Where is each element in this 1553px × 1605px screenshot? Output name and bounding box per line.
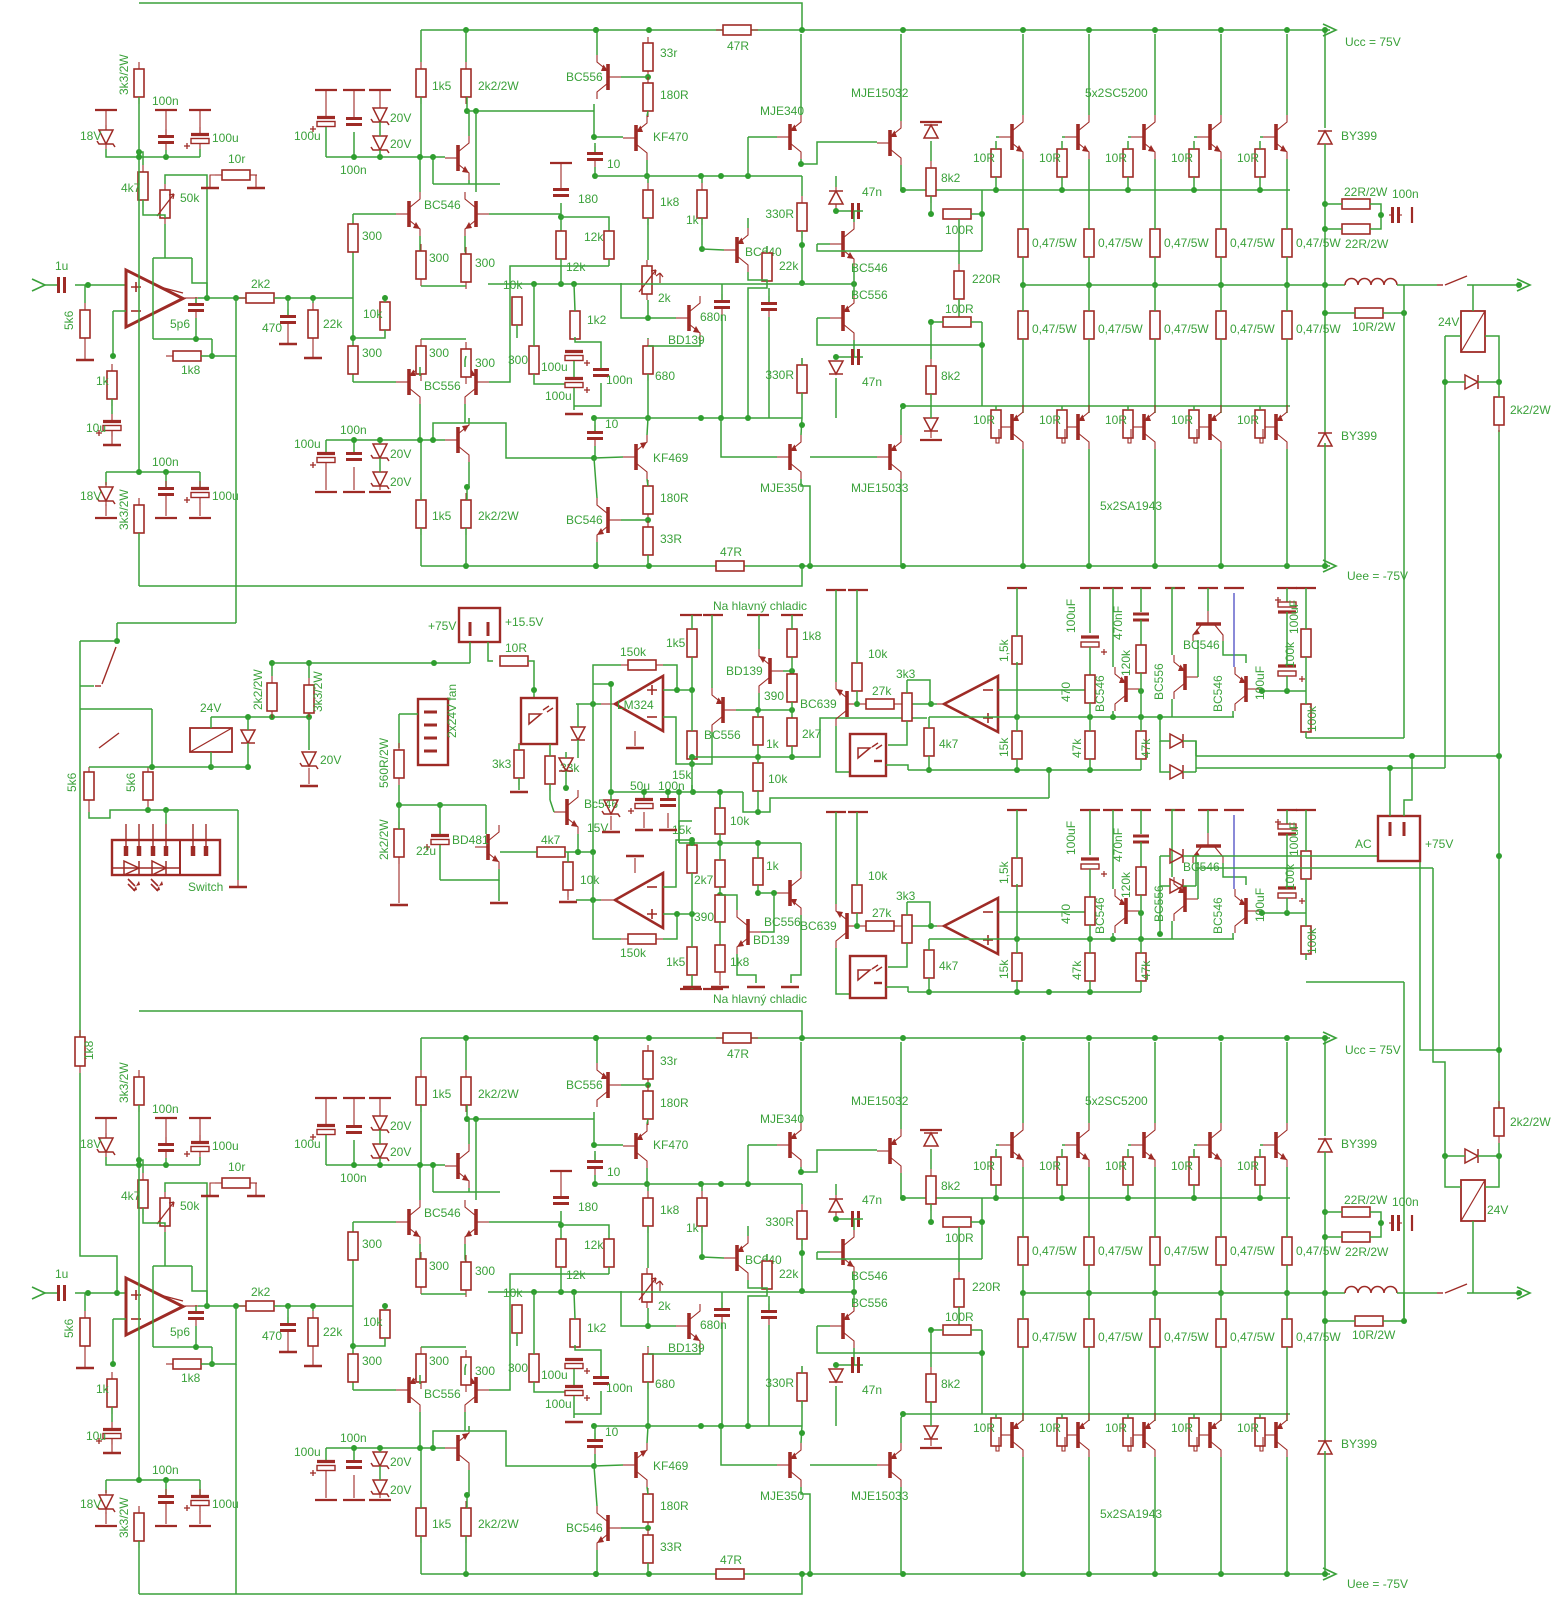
diode drive a: [577, 726, 579, 728]
resistor 10R top #2: [1061, 1156, 1063, 1158]
resistor 300 in2: [352, 345, 354, 347]
transistor 2SA1943 #3: [1142, 1422, 1146, 1448]
wire opamp output: [601, 899, 615, 901]
svg-text:2k2/2W: 2k2/2W: [1510, 1115, 1551, 1129]
wire bc546b collector: [594, 458, 597, 498]
diode protection lower: [835, 360, 837, 362]
svg-text:100n: 100n: [340, 423, 367, 437]
resistor 0,47/5W top #1: [1022, 228, 1024, 230]
transistor 2SA1943 #5: [1274, 1422, 1278, 1448]
wire bc556 emitter to rail: [596, 30, 598, 55]
resistor 3k3/2W lower: [138, 498, 140, 505]
switch output: [1437, 284, 1443, 286]
svg-text:100n: 100n: [340, 163, 367, 177]
resistor 33R lower: [647, 521, 649, 527]
svg-text:BC639: BC639: [800, 919, 837, 933]
svg-text:10k: 10k: [363, 1315, 383, 1329]
wire inductor out: [1397, 1292, 1437, 1294]
capacitor 100uF sensor c: [1278, 886, 1296, 889]
zener 15V: [610, 799, 612, 801]
transistor BD139 limiter: [768, 658, 772, 684]
wire mje15032 collector: [900, 1042, 902, 1129]
svg-text:20V: 20V: [390, 447, 411, 461]
resistor 3k3/2W mid: [308, 678, 310, 685]
wire ltp emitters: [419, 236, 421, 251]
relay 24V mid: [190, 728, 232, 752]
wire bd139 low emitter: [737, 954, 756, 983]
wire emitter col #4: [1220, 1167, 1222, 1237]
transistor MJE15033: [888, 444, 892, 470]
transistor MJE340: [788, 1132, 792, 1158]
capacitor 100u rail top: [315, 89, 337, 91]
svg-text:10u: 10u: [86, 421, 106, 435]
ground 10r left: [210, 175, 215, 188]
transistor BC546 sensor c: [1244, 898, 1248, 924]
svg-text:10R: 10R: [1237, 151, 1259, 165]
resistor 22k bias: [766, 246, 768, 253]
svg-text:0,47/5W: 0,47/5W: [1164, 1330, 1209, 1344]
capacitor 10 upper: [594, 146, 596, 152]
wire collector low #4: [1220, 1457, 1222, 1574]
wire collector low #5: [1286, 1457, 1288, 1574]
resistor 12k b: [608, 1238, 610, 1240]
resistor 0,47/5W top #4: [1220, 1236, 1222, 1238]
svg-text:2k2/2W: 2k2/2W: [1510, 403, 1551, 417]
wire bc546p emitter: [853, 266, 855, 284]
svg-text:300: 300: [429, 251, 449, 265]
resistor 8k2 upper: [930, 161, 932, 168]
ground 5k6: [84, 1353, 86, 1368]
resistor 0,47/5W top #2: [1088, 228, 1090, 230]
resistor 100k sensor a: [1301, 629, 1311, 657]
wire bc639 collector: [836, 726, 850, 772]
svg-text:1k2: 1k2: [587, 1321, 607, 1335]
svg-text:180: 180: [578, 192, 598, 206]
wire kf470 base net: [594, 1112, 623, 1145]
svg-text:0,47/5W: 0,47/5W: [1296, 322, 1341, 336]
svg-text:10k: 10k: [580, 873, 600, 887]
resistor 3k3/2W lower: [138, 1506, 140, 1513]
svg-text:100n: 100n: [340, 1431, 367, 1445]
svg-text:0,47/5W: 0,47/5W: [1230, 1244, 1275, 1258]
svg-text:10R: 10R: [1105, 151, 1127, 165]
svg-text:100uF: 100uF: [1253, 888, 1267, 922]
resistor 10k bc639: [848, 589, 868, 591]
wire bias net y284: [488, 283, 854, 285]
wire cs top collector: [468, 1119, 470, 1144]
resistor 10R bottom #5: [1259, 1417, 1261, 1419]
wire base feed rail top: [903, 1197, 1290, 1199]
svg-text:100uF: 100uF: [1064, 599, 1078, 633]
transistor BC546 protect upper: [841, 1239, 845, 1265]
resistor 1k5 bottom: [420, 493, 422, 500]
ground led block: [229, 886, 247, 889]
transistor 2SC5200 #3: [1142, 1132, 1146, 1158]
svg-text:10R: 10R: [1105, 413, 1127, 427]
resistor 1k vas: [701, 1191, 703, 1198]
capacitor 100n decouple: [600, 367, 602, 369]
resistor 22R/2W a: [1341, 203, 1343, 205]
svg-text:5k6: 5k6: [62, 310, 76, 330]
diode 8k2 column top: [920, 1129, 942, 1131]
resistor 10R top #3: [1127, 148, 1129, 150]
wire bc546p base: [817, 243, 830, 245]
transistor BC546 ltp-left: [407, 201, 411, 227]
resistor 8k2 upper: [930, 1169, 932, 1176]
ground 10r right: [250, 1183, 256, 1196]
transistor BD139 bias: [687, 305, 691, 331]
svg-text:150k: 150k: [620, 946, 647, 960]
resistor 2k2 series: [239, 297, 246, 299]
transistor BC556 ltp2-right: [474, 1377, 478, 1403]
resistor 12k a: [560, 230, 562, 232]
resistor 22R/2W b: [1341, 228, 1343, 230]
wire bc546c base: [1259, 689, 1306, 691]
capacitor 10 lower: [594, 425, 596, 431]
svg-text:1k8: 1k8: [181, 1371, 201, 1385]
resistor 47k sensor a: [1085, 731, 1095, 759]
wire kf470 collector: [647, 111, 648, 116]
resistor 10R top #4: [1193, 148, 1195, 150]
resistor 10R: [499, 660, 501, 662]
wire bd139 base: [783, 670, 792, 672]
resistor 0,47/5W bottom #5: [1286, 310, 1288, 312]
svg-text:BC546: BC546: [1183, 860, 1220, 874]
wire cs top emitter: [468, 1188, 470, 1192]
resistor 10R bottom #5: [1259, 409, 1261, 411]
ground 5k6: [84, 345, 86, 360]
svg-text:1k8: 1k8: [730, 955, 750, 969]
wire led pins: [165, 810, 167, 824]
svg-text:300: 300: [475, 1264, 495, 1278]
svg-text:1k8: 1k8: [660, 1203, 680, 1217]
wire ltp2 bases: [353, 381, 396, 383]
svg-text:1k8: 1k8: [802, 629, 822, 643]
wire collector #2: [1088, 34, 1090, 115]
svg-text:100n: 100n: [152, 1102, 179, 1116]
wire bc546c bottom: [1232, 711, 1234, 717]
transistor 2SA1943 #1: [1010, 1422, 1014, 1448]
op-amp LM324 limiter: [615, 676, 663, 731]
wire bc556 low collector: [800, 843, 802, 871]
svg-text:MJE340: MJE340: [760, 104, 804, 118]
resistor 15k limiter: [687, 731, 697, 759]
net arrow Uee: [1323, 560, 1336, 572]
svg-text:20V: 20V: [390, 1145, 411, 1159]
svg-text:3k3: 3k3: [492, 757, 512, 771]
transistor 2SA1943 #1: [1010, 414, 1014, 440]
wire diode feeds: [1160, 717, 1170, 741]
transistor 2SA1943 #3: [1142, 414, 1146, 440]
svg-text:MJE15032: MJE15032: [851, 1094, 909, 1108]
wire 2k2 node to diff: [352, 1222, 354, 1390]
transistor BC546 sensor a: [1124, 676, 1128, 702]
transistor MJE15033: [888, 1452, 892, 1478]
wire top-left supply rail: [139, 1011, 802, 1038]
wire mid rail y176: [595, 1183, 802, 1185]
svg-text:180: 180: [578, 1200, 598, 1214]
svg-text:2k2/2W: 2k2/2W: [478, 79, 519, 93]
svg-text:100n: 100n: [1392, 1195, 1419, 1209]
capacitor 47n lower: [850, 356, 852, 358]
diode relay bottom: [1464, 1155, 1466, 1157]
resistor 1k limiter: [753, 717, 763, 745]
svg-text:10R: 10R: [1039, 1159, 1061, 1173]
svg-text:470: 470: [262, 1329, 282, 1343]
transistor 2SA1943 #2: [1076, 414, 1080, 440]
svg-text:0,47/5W: 0,47/5W: [1098, 236, 1143, 250]
svg-text:3k3/2W: 3k3/2W: [117, 1062, 131, 1103]
wire collector low #3: [1154, 449, 1156, 566]
svg-text:20V: 20V: [390, 1455, 411, 1469]
svg-text:8k2: 8k2: [941, 1179, 961, 1193]
wire +75 feed line: [272, 662, 470, 664]
resistor 1k limiter low: [753, 858, 763, 885]
comparator triangle: [944, 676, 998, 732]
resistor 10R bottom #3: [1127, 1417, 1129, 1419]
svg-text:5x2SC5200: 5x2SC5200: [1085, 1094, 1148, 1108]
resistor 22k bias: [766, 1254, 768, 1261]
resistor 0,47/5W top #2: [1088, 1236, 1090, 1238]
wire bc556s base: [1197, 862, 1199, 899]
svg-text:22R/2W: 22R/2W: [1344, 185, 1388, 199]
wire mid supply line y792: [611, 791, 743, 793]
wire 10k bottom: [353, 1338, 385, 1346]
svg-text:KF469: KF469: [653, 451, 689, 465]
wire bc546b collector: [594, 1466, 597, 1506]
resistor 10k drive: [567, 855, 569, 862]
wire bc556 low emitter: [791, 915, 801, 983]
svg-text:1k5: 1k5: [666, 636, 686, 650]
wire kf470 collector: [647, 1119, 648, 1124]
wire bc546a emitter col: [1112, 810, 1114, 889]
svg-text:Uee = -75V: Uee = -75V: [1347, 569, 1408, 583]
svg-text:MJE350: MJE350: [760, 481, 804, 495]
wire bc556p emitter: [853, 284, 855, 296]
resistor 33k: [549, 749, 551, 756]
resistor 2k2/2W bottom: [465, 1501, 467, 1508]
resistor 300 in1: [352, 223, 354, 225]
svg-text:2k: 2k: [658, 1299, 672, 1313]
svg-text:47R: 47R: [720, 545, 742, 559]
capacitor 10 lower: [594, 1433, 596, 1439]
resistor 10R top #1: [995, 148, 997, 150]
svg-text:2k2/2W: 2k2/2W: [377, 819, 391, 860]
ground decouple: [565, 413, 583, 416]
resistor 680: [647, 339, 649, 346]
svg-text:5p6: 5p6: [170, 1325, 190, 1339]
wire bd139 low base: [761, 893, 774, 932]
trimmer 2k bias: [646, 260, 648, 266]
wire link line low: [679, 842, 758, 844]
svg-text:2k2/2W: 2k2/2W: [478, 1517, 519, 1531]
wire collector #1: [1022, 34, 1024, 115]
resistor 0,47/5W top #1: [1022, 1236, 1024, 1238]
svg-text:BY399: BY399: [1341, 1137, 1377, 1151]
svg-text:BY399: BY399: [1341, 1437, 1377, 1451]
wire blue collector: [1233, 593, 1235, 667]
wire bc556s collector: [1171, 699, 1173, 717]
svg-text:100n: 100n: [152, 455, 179, 469]
capacitor 5p6 feedback: [195, 297, 197, 303]
resistor 2k2/2W right top: [1498, 390, 1500, 397]
svg-text:10R: 10R: [1039, 1421, 1061, 1435]
diode 8k2 column bottom: [930, 1425, 932, 1427]
svg-text:18V: 18V: [80, 1497, 101, 1511]
svg-text:1,5k: 1,5k: [997, 638, 1011, 662]
capacitor 100n rail top: [343, 89, 365, 91]
resistor 15k limiter: [687, 845, 697, 873]
wire collector low #4: [1220, 449, 1222, 566]
capacitor 100uF sensor a: [1089, 810, 1091, 855]
wire ltp collectors: [419, 1165, 421, 1200]
wire bc556s collector: [1171, 921, 1173, 939]
transistor BC546 vas bottom: [606, 507, 610, 533]
wire bc546b base: [621, 1527, 648, 1529]
svg-text:4k7: 4k7: [121, 181, 141, 195]
svg-text:5k6: 5k6: [124, 772, 138, 792]
resistor 220R: [958, 264, 960, 271]
wire vas drive bottom: [433, 1431, 594, 1466]
wire collector low #2: [1088, 1457, 1090, 1574]
wire bc546b emitter: [596, 542, 598, 566]
resistor 0,47/5W bottom #3: [1154, 310, 1156, 312]
wire minus input: [663, 840, 692, 887]
wire 4k7 to 50k: [143, 200, 165, 218]
svg-text:1k: 1k: [766, 859, 780, 873]
wire comparator output: [937, 703, 944, 705]
net arrow output: [1467, 284, 1519, 286]
wire mje340 base: [748, 136, 777, 138]
resistor 1k8 limiter low: [715, 945, 725, 972]
resistor 120k sensor: [1136, 867, 1146, 895]
svg-text:2k7: 2k7: [694, 873, 714, 887]
capacitor 100n rail bottom: [353, 440, 355, 452]
wire lower diode feeds: [1160, 855, 1170, 857]
svg-text:300: 300: [508, 353, 528, 367]
transistor 2SC5200 #1: [1010, 124, 1014, 150]
node vas out: [801, 231, 803, 283]
resistor 100k sensor b: [1301, 704, 1311, 732]
resistor 1k: [111, 364, 113, 371]
capacitor 100n upper-left: [155, 109, 177, 111]
optocoupler limiter: [850, 734, 886, 776]
svg-text:300: 300: [362, 229, 382, 243]
transistor 2SC5200 #5: [1274, 1132, 1278, 1158]
wire cs bottom collector: [468, 1470, 470, 1495]
svg-text:0,47/5W: 0,47/5W: [1296, 236, 1341, 250]
wire bc556p collector: [854, 340, 863, 357]
svg-text:3k3/2W: 3k3/2W: [117, 54, 131, 95]
svg-text:1k8: 1k8: [181, 363, 201, 377]
diode or a: [1169, 740, 1171, 742]
wire kf470 emitter to mid rail: [646, 160, 648, 176]
transistor BC546 sensor b rotated: [1196, 844, 1221, 848]
resistor 15k sensor: [1012, 953, 1022, 981]
svg-text:100n: 100n: [340, 1171, 367, 1185]
svg-text:0,47/5W: 0,47/5W: [1230, 1330, 1275, 1344]
capacitor 100uF sensor a: [1089, 588, 1091, 633]
wire lower cluster: [106, 1479, 200, 1481]
wire vas drive bottom: [433, 423, 594, 458]
transistor KF470: [634, 1133, 638, 1159]
svg-text:100u: 100u: [541, 360, 568, 374]
resistor 1k2: [574, 310, 576, 312]
svg-text:BC546: BC546: [566, 513, 603, 527]
wire bc556 base: [621, 1084, 648, 1086]
svg-text:22k: 22k: [323, 1325, 343, 1339]
svg-text:20V: 20V: [390, 475, 411, 489]
svg-text:1k: 1k: [96, 374, 110, 388]
wire blue collector: [1233, 815, 1235, 889]
wire bc556s emitter col: [1172, 588, 1175, 655]
svg-text:1k5: 1k5: [432, 1087, 452, 1101]
transistor KF470: [634, 125, 638, 151]
wire bc546b emitter chain: [1223, 863, 1246, 885]
wire sense line y717: [1017, 938, 1234, 940]
wire bc546a base: [1139, 689, 1141, 691]
resistor 390 limiter: [787, 674, 797, 702]
transistor BC556 sensor: [1183, 664, 1187, 690]
svg-text:100u: 100u: [212, 1497, 239, 1511]
svg-text:MJE15033: MJE15033: [851, 1489, 909, 1503]
svg-text:BC546: BC546: [1211, 897, 1225, 934]
svg-text:24V: 24V: [1438, 315, 1459, 329]
wire feedback: [593, 900, 621, 939]
transistor MJE350: [788, 444, 792, 470]
capacitor bc640 filter: [768, 1304, 770, 1310]
resistor 330R upper: [801, 1204, 803, 1211]
resistor 47k sensor a: [1085, 953, 1095, 981]
net arrow output: [1467, 1292, 1519, 1294]
zener 20V top a: [369, 89, 391, 91]
wire ltp2 bases: [353, 1389, 396, 1391]
svg-text:100n: 100n: [658, 779, 685, 793]
svg-text:47k: 47k: [1070, 960, 1084, 980]
wire bd139 collector: [758, 693, 760, 710]
wire bottom line y770: [908, 991, 1141, 993]
resistor 2k2/2W bottom: [465, 493, 467, 500]
wire minus input: [663, 717, 692, 764]
svg-text:Switch: Switch: [188, 880, 223, 894]
resistor 390 limiter low: [715, 895, 725, 922]
wire emitter col #5: [1286, 1167, 1288, 1237]
wire bc546c base: [1259, 911, 1306, 913]
resistor 0,47/5W top #5: [1286, 228, 1288, 230]
svg-text:1k8: 1k8: [660, 195, 680, 209]
resistor 10R bottom #4: [1193, 409, 1195, 411]
transistor BD481: [486, 834, 490, 860]
svg-text:300: 300: [475, 256, 495, 270]
svg-text:10R: 10R: [1171, 1159, 1193, 1173]
ground zener mid: [300, 785, 318, 788]
capacitor bc640 filter: [768, 296, 770, 302]
resistor 4k7: [142, 165, 144, 172]
resistor 150k feedback: [628, 934, 656, 944]
svg-text:+15.5V: +15.5V: [505, 615, 543, 629]
resistor 330R upper: [801, 196, 803, 203]
wire feedback loop: [195, 298, 197, 303]
capacitor 10u electrolytic: [111, 1422, 113, 1428]
wire bc556p emitter: [853, 1292, 855, 1304]
wire 1k8 right to NFB: [201, 298, 236, 356]
wire relay top line: [211, 716, 309, 718]
svg-text:0,47/5W: 0,47/5W: [1098, 322, 1143, 336]
svg-text:47k: 47k: [1139, 738, 1153, 758]
svg-text:BC556: BC556: [851, 288, 888, 302]
transistor Bc546 drive: [565, 799, 569, 825]
resistor 33R lower: [647, 1529, 649, 1535]
